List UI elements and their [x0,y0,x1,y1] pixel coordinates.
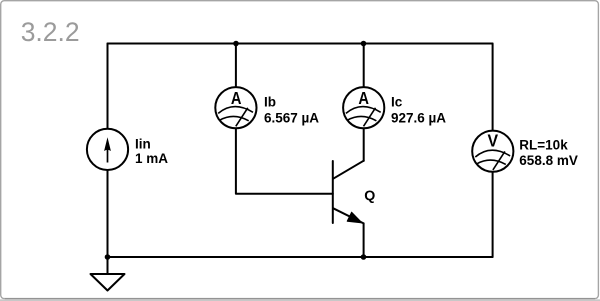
svg-text:6.567 µA: 6.567 µA [264,110,319,125]
wire ground stub [107,257,109,274]
label Ic value [391,95,446,126]
node top-left junction [233,41,239,47]
current source Iin [87,129,128,170]
label Ib value [264,95,319,126]
svg-text:Iin: Iin [135,137,151,152]
node bottom-left junction [105,254,111,260]
ammeter Ib [215,87,256,128]
wire Ib branch upper [235,44,237,88]
svg-text:Ic: Ic [391,95,403,110]
wire Ic branch upper [363,44,365,88]
svg-text:Q: Q [364,188,375,204]
label Iin value [135,137,168,167]
wire Ib branch lower to base [236,128,333,194]
ammeter Ic [343,87,384,128]
svg-text:A: A [231,88,242,108]
wire top rail [108,43,493,45]
wire right rail upper [492,44,494,131]
svg-text:1 mA: 1 mA [135,151,168,166]
svg-text:Ib: Ib [264,95,276,110]
wire left rail lower [107,170,109,257]
svg-text:3.2.2: 3.2.2 [21,17,80,47]
wire left rail upper [107,44,109,130]
node emitter junction [361,254,367,260]
wire emitter to bottom rail [363,223,365,257]
svg-text:927.6 µA: 927.6 µA [391,110,446,125]
wire right rail lower [492,172,494,258]
svg-text:658.8 mV: 658.8 mV [519,153,578,168]
svg-text:A: A [358,88,369,108]
ground [91,274,125,291]
svg-text:V: V [488,131,499,151]
transistor Q emitter arrow [347,212,362,223]
label RL value [519,138,578,169]
svg-text:RL=10k: RL=10k [519,138,568,153]
wire Ic branch to collector [363,128,365,161]
voltmeter RL [472,131,513,172]
wire bottom rail [108,256,493,258]
node top-right junction [361,41,367,47]
transistor Q [333,161,364,224]
